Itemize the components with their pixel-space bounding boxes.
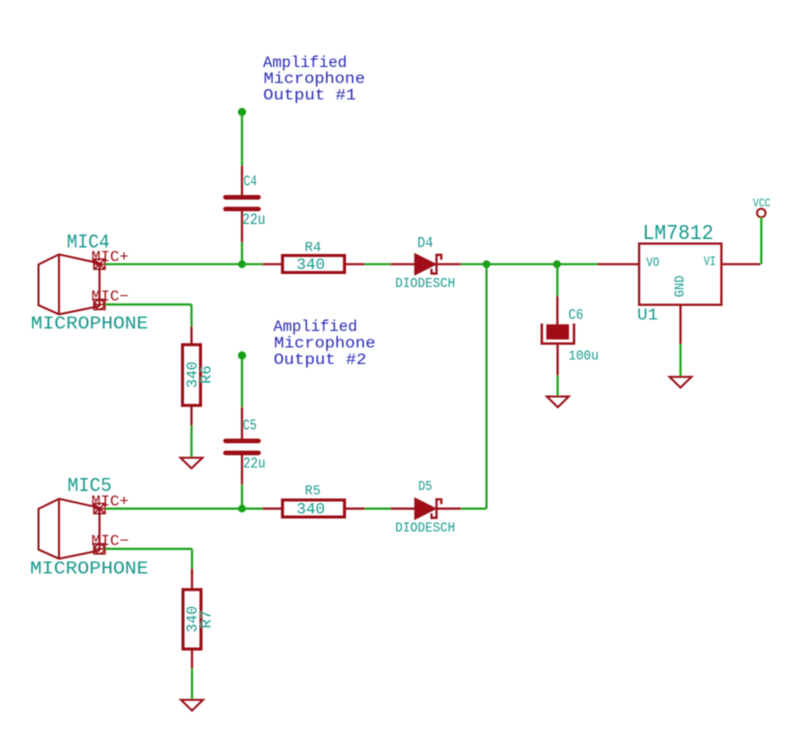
svg-text:Output #2: Output #2 xyxy=(274,351,367,369)
wire D5 to vertical bus xyxy=(461,508,487,510)
pin MIC- square inverted (MIC4) xyxy=(94,299,105,309)
svg-text:R5: R5 xyxy=(305,484,321,499)
svg-text:Microphone: Microphone xyxy=(264,70,366,88)
node output2 endpoint dot xyxy=(238,351,246,359)
node junction row1 at C4 xyxy=(238,260,246,268)
svg-text:VO: VO xyxy=(646,255,659,270)
svg-text:DIODESCH: DIODESCH xyxy=(395,276,455,292)
wire C5 to row2 junction xyxy=(241,485,243,509)
note text Amplified Microphone Output #1 xyxy=(263,54,365,105)
wire C6 to ground xyxy=(556,376,558,397)
pin MIC- square inverted (MIC5) xyxy=(94,544,105,554)
ground below R6 xyxy=(181,458,203,469)
ground below R7 xyxy=(181,700,203,711)
wire R5 to D5 xyxy=(365,508,391,510)
wire U1 GND pin to ground xyxy=(679,344,681,377)
svg-text:MIC−: MIC− xyxy=(91,290,129,306)
wire C4 to row1 junction xyxy=(241,242,243,264)
node junction B xyxy=(553,260,561,268)
svg-text:MIC−: MIC− xyxy=(91,534,129,550)
svg-text:MICROPHONE: MICROPHONE xyxy=(30,559,149,579)
svg-text:MIC+: MIC+ xyxy=(91,494,129,510)
capacitor C6 polarized xyxy=(542,296,574,376)
wire MIC4+ to junction xyxy=(105,263,242,265)
svg-text:LM7812: LM7812 xyxy=(643,223,714,246)
resistor R7 xyxy=(183,569,201,669)
node junction A xyxy=(483,260,491,268)
power flag VCC circle xyxy=(757,209,766,218)
svg-text:U1: U1 xyxy=(637,306,658,325)
svg-text:C4: C4 xyxy=(244,174,258,190)
svg-text:340: 340 xyxy=(297,256,326,274)
wire output2 dot to C5 xyxy=(241,356,243,408)
pin MIC+ square nonlogic (MIC4) xyxy=(94,259,105,269)
microphone MIC5 symbol xyxy=(39,499,100,559)
note text Amplified Microphone Output #2 xyxy=(273,318,375,369)
ground below C6 xyxy=(547,397,569,408)
wire junction to R4 xyxy=(242,263,263,265)
svg-text:MICROPHONE: MICROPHONE xyxy=(31,314,149,334)
svg-text:Amplified: Amplified xyxy=(273,318,357,336)
diode D5 schottky xyxy=(391,498,462,519)
wire R4 to D4 xyxy=(365,263,391,265)
wire R6 to ground xyxy=(190,426,192,458)
svg-text:Output #1: Output #1 xyxy=(263,87,356,105)
svg-text:D4: D4 xyxy=(417,236,433,252)
svg-text:VI: VI xyxy=(704,254,716,269)
wire D4 to junction A xyxy=(461,263,487,265)
svg-text:Amplified: Amplified xyxy=(263,54,347,72)
diode D4 schottky xyxy=(391,254,462,275)
capacitor C5 xyxy=(226,407,259,485)
wire output1 dot to C4 xyxy=(241,112,243,166)
regulator U1 LM7812 xyxy=(598,244,761,344)
svg-text:D5: D5 xyxy=(418,479,432,495)
svg-text:VCC: VCC xyxy=(753,196,771,210)
svg-text:R4: R4 xyxy=(305,240,322,256)
svg-text:22u: 22u xyxy=(243,455,266,472)
ground below U1 xyxy=(670,377,692,388)
svg-text:Microphone: Microphone xyxy=(274,335,376,353)
resistor R6 xyxy=(183,327,201,426)
wire junction B to U1 VO xyxy=(557,263,598,265)
microphone MIC4 symbol xyxy=(39,254,100,314)
node output1 endpoint dot xyxy=(238,108,246,116)
svg-text:22u: 22u xyxy=(242,211,266,229)
wire MIC5- to R7 xyxy=(105,549,192,569)
capacitor C4 xyxy=(226,166,259,243)
wire junction A to junction B xyxy=(487,263,558,265)
svg-text:C5: C5 xyxy=(243,418,257,434)
svg-text:MIC+: MIC+ xyxy=(91,250,129,266)
svg-text:100u: 100u xyxy=(568,349,598,365)
svg-text:R7: R7 xyxy=(200,610,216,629)
svg-text:DIODESCH: DIODESCH xyxy=(395,521,455,537)
svg-text:R6: R6 xyxy=(199,365,215,384)
wire junction B down to C6 xyxy=(556,264,558,296)
wire R7 to ground xyxy=(191,669,193,700)
wire vertical bus row2 to row1 xyxy=(485,264,487,508)
wire junction row2 to R5 xyxy=(242,508,263,510)
svg-text:C6: C6 xyxy=(568,307,583,324)
svg-text:GND: GND xyxy=(672,275,688,297)
wire MIC5+ to junction row2 xyxy=(105,508,242,510)
pin MIC+ square nonlogic (MIC5) xyxy=(94,504,105,514)
resistor R5 xyxy=(263,500,365,517)
svg-text:340: 340 xyxy=(297,500,326,518)
wire VCC down to VI xyxy=(760,218,762,265)
node junction row2 xyxy=(238,505,246,513)
wire MIC4- to R6 xyxy=(105,305,191,327)
resistor R4 xyxy=(263,256,365,273)
